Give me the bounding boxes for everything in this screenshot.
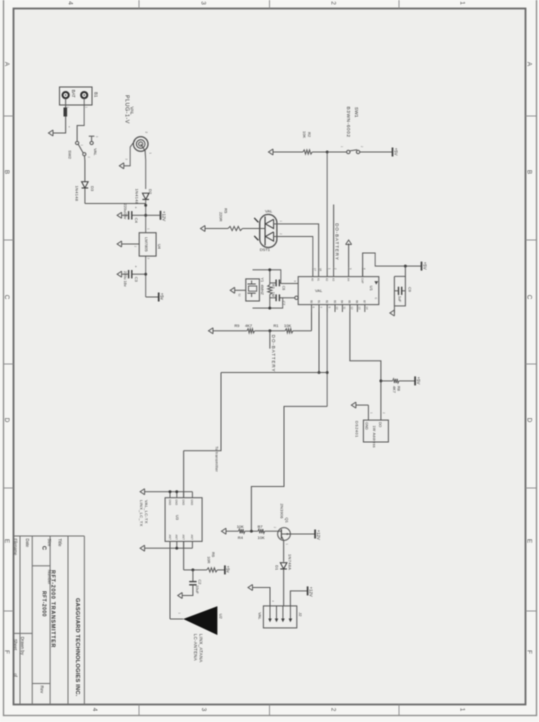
svg-text:Date: Date [25,539,30,548]
svg-text:10K: 10K [258,535,265,540]
svg-text:U2: U2 [219,614,224,620]
svg-text:SW2: SW2 [67,150,72,159]
svg-text:R7: R7 [258,524,264,529]
svg-text:+12V: +12V [308,587,313,597]
svg-text:VAL: VAL [130,107,135,116]
svg-text:F: F [3,650,10,654]
svg-text:10K: 10K [302,131,307,138]
svg-text:R9: R9 [234,323,240,328]
svg-text:F: F [526,650,533,654]
svg-text:R8: R8 [397,386,402,391]
svg-text:BAT: BAT [71,90,76,98]
svg-text:220R: 220R [218,212,223,222]
svg-text:+: + [134,207,138,209]
svg-text:GND: GND [365,422,369,430]
svg-text:2: 2 [330,1,337,5]
svg-text:U4: U4 [157,244,162,250]
svg-text:LC-ANTENA: LC-ANTENA [193,634,198,661]
svg-text:R3: R3 [271,284,275,289]
svg-text:+12V: +12V [161,211,166,221]
svg-text:C2: C2 [197,580,201,585]
svg-text:Size: Size [47,539,52,548]
svg-text:+: + [134,266,138,268]
svg-text:C4: C4 [134,218,139,224]
svg-text:+5v: +5v [226,566,231,574]
svg-text:1M: 1M [271,292,275,297]
svg-text:Rev: Rev [39,686,44,694]
svg-text:+5V: +5V [422,262,427,270]
svg-text:C3: C3 [134,277,139,283]
svg-text:+5v: +5v [160,293,165,301]
svg-text:DO: DO [378,422,382,428]
svg-text:GASGUARD TECHNOLOGIES INC.: GASGUARD TECHNOLOGIES INC. [74,598,80,697]
svg-text:VAL: VAL [265,209,273,214]
svg-text:10K: 10K [284,323,291,328]
svg-text:R6: R6 [211,552,216,557]
svg-text:D1: D1 [275,565,280,571]
svg-text:C9: C9 [407,287,411,292]
svg-text:1: 1 [459,708,466,712]
svg-text:R2: R2 [307,132,312,138]
svg-text:1W Address: 1W Address [372,426,376,448]
svg-text:220u 16v: 220u 16v [123,271,127,287]
svg-text:1N748A: 1N748A [288,554,293,570]
svg-text:4K7: 4K7 [245,323,253,328]
svg-text:LINX_LC_TX: LINX_LC_TX [139,500,144,527]
svg-text:R5: R5 [223,208,228,214]
svg-text:1N4148: 1N4148 [74,186,79,202]
svg-text:4K7: 4K7 [392,386,397,393]
svg-text:D: D [3,418,10,423]
svg-text:4: 4 [67,1,74,5]
svg-text:D: D [526,418,533,423]
svg-text:DO-BATTERY: DO-BATTERY [271,335,276,373]
svg-text:+5V: +5V [416,377,421,385]
svg-text:.1uF: .1uF [397,295,401,303]
svg-text:DST1: DST1 [260,247,271,252]
svg-text:C: C [526,295,533,300]
svg-text:R1: R1 [273,323,279,328]
svg-text:1N4148: 1N4148 [135,189,140,205]
svg-text:10R: 10R [206,556,211,563]
svg-text:1: 1 [459,1,466,5]
svg-text:Q1: Q1 [285,518,290,524]
svg-text:DS2401: DS2401 [354,421,359,438]
svg-text:220u/25v: 220u/25v [123,204,127,220]
svg-text:Sheet: Sheet [13,639,18,651]
svg-text:U3: U3 [175,515,180,520]
svg-text:C7: C7 [282,301,286,306]
svg-text:LINX_ATANA: LINX_ATANA [199,634,204,663]
svg-text:R4: R4 [238,535,244,540]
svg-text:10uF: 10uF [195,585,199,594]
svg-text:DO-BATTERY: DO-BATTERY [335,223,340,261]
svg-text:Filename: Filename [13,539,18,557]
svg-text:B1: B1 [94,92,99,98]
svg-text:3: 3 [200,708,207,712]
svg-text:B: B [3,170,10,174]
svg-text:10K: 10K [237,524,244,529]
svg-text:Title: Title [57,539,62,548]
svg-text:Drawn by: Drawn by [20,637,25,656]
svg-text:RFT-2000: RFT-2000 [40,591,46,617]
svg-text:4: 4 [91,708,98,712]
svg-text:C: C [3,295,10,300]
svg-text:VAL_LC-TX: VAL_LC-TX [144,500,149,524]
svg-text:+5V: +5V [393,148,398,156]
svg-text:VAL: VAL [315,288,323,293]
svg-text:Y1: Y1 [260,278,264,283]
svg-text:B: B [526,170,533,174]
svg-text:D2: D2 [148,189,153,195]
svg-text:E: E [3,539,10,543]
svg-text:3: 3 [200,1,207,5]
svg-text:2N3906: 2N3906 [279,504,284,520]
svg-text:C6: C6 [282,286,286,291]
svg-text:D3: D3 [90,186,95,192]
svg-text:4MHZ: 4MHZ [260,285,264,296]
svg-text:2: 2 [330,708,337,712]
svg-text:PLUG-1-V: PLUG-1-V [123,95,129,124]
svg-text:VAL: VAL [93,148,98,156]
svg-text:Number: Number [47,570,52,585]
svg-text:E: E [526,539,533,543]
svg-text:+: + [68,126,72,128]
svg-text:+12V: +12V [316,530,321,540]
svg-text:A: A [526,62,533,67]
svg-text:LM7805: LM7805 [144,237,149,252]
svg-text:A: A [3,62,10,67]
svg-text:VAL: VAL [257,612,262,620]
svg-text:U1: U1 [369,286,374,292]
svg-text:To transmitter: To transmitter [214,446,218,472]
